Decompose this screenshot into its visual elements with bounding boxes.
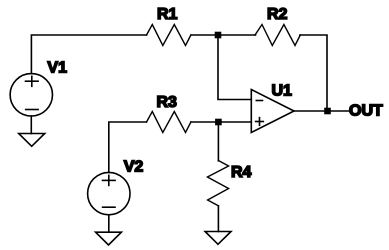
node junction J1 bbox=[215, 32, 222, 39]
ground under R4 bbox=[205, 232, 231, 245]
op-amp plus sign bbox=[256, 121, 264, 123]
svg-text:R3: R3 bbox=[157, 94, 178, 111]
wire J2 down to R4 bbox=[217, 122, 219, 161]
svg-text:R2: R2 bbox=[267, 6, 288, 23]
wire R3 to noninverting input bbox=[191, 121, 251, 123]
svg-text:V1: V1 bbox=[47, 60, 67, 77]
wire V2 top to R3 bbox=[109, 122, 147, 172]
ground under V2 bbox=[96, 232, 122, 245]
ground under V1 bbox=[19, 134, 45, 147]
svg-text:R4: R4 bbox=[231, 164, 252, 181]
resistor R4 bbox=[207, 161, 228, 206]
op-amp U1 bbox=[251, 90, 294, 133]
svg-text:V2: V2 bbox=[124, 158, 144, 175]
voltage source V2 bbox=[88, 172, 130, 214]
svg-text:U1: U1 bbox=[272, 83, 293, 100]
svg-text:OUT: OUT bbox=[349, 103, 383, 120]
resistor R1 bbox=[147, 25, 191, 46]
svg-text:R1: R1 bbox=[157, 6, 178, 23]
resistor R3 bbox=[147, 112, 191, 133]
node junction J2 bbox=[215, 119, 222, 126]
wire V1 to ground bbox=[30, 116, 32, 134]
op-amp minus sign bbox=[256, 100, 262, 102]
wire op-amp output to OUT bbox=[294, 110, 349, 112]
wire V2 to ground bbox=[108, 215, 110, 232]
wire R2 right down to output node bbox=[300, 35, 327, 111]
resistor R2 bbox=[255, 25, 300, 46]
voltage source V1 bbox=[10, 74, 52, 116]
wire V1 top to R1 bbox=[31, 35, 146, 74]
wire J1 down to inverting input bbox=[218, 35, 251, 100]
node junction J3 bbox=[324, 108, 331, 115]
wire R1 to junction to R2 bbox=[191, 34, 256, 36]
wire R4 to ground bbox=[217, 206, 219, 232]
